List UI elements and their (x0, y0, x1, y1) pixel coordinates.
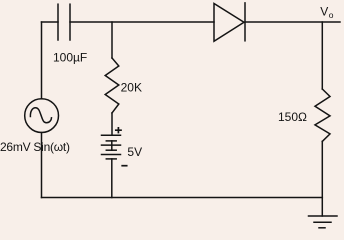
svg-text:20K: 20K (121, 80, 142, 94)
svg-text:150Ω: 150Ω (278, 110, 307, 124)
svg-text:5V: 5V (127, 145, 142, 159)
svg-text:o: o (329, 10, 334, 20)
svg-text:100µF: 100µF (53, 50, 87, 64)
svg-text:V: V (320, 5, 328, 19)
svg-text:26mV Sin(ωt): 26mV Sin(ωt) (0, 140, 70, 154)
